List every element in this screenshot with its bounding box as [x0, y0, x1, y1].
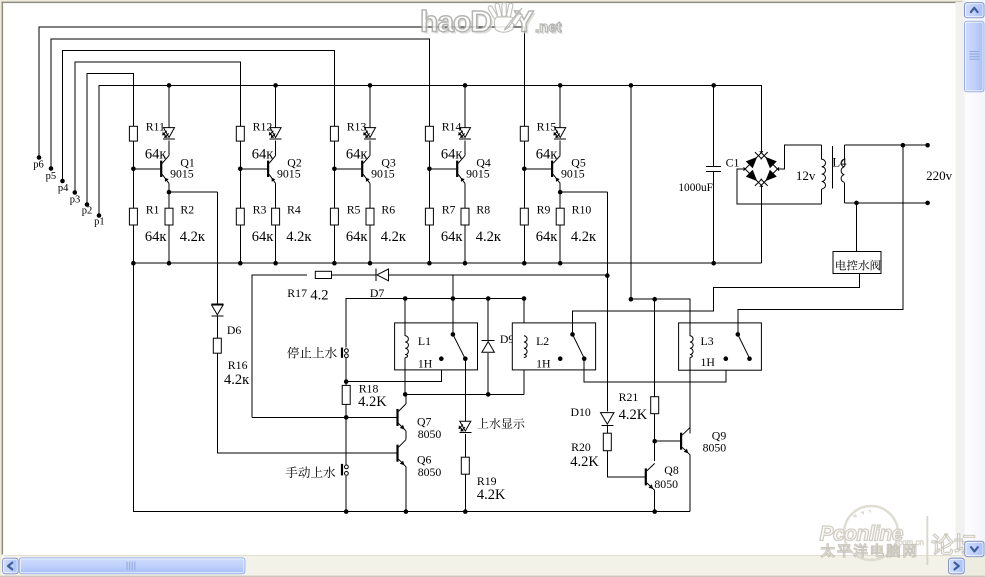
- svg-text:R3: R3: [253, 203, 267, 217]
- svg-text:R13: R13: [347, 120, 367, 134]
- svg-text:4.2K: 4.2K: [477, 487, 506, 503]
- svg-text:4.2к: 4.2к: [224, 372, 250, 388]
- svg-text:64к: 64к: [441, 147, 464, 163]
- svg-text:4.2K: 4.2K: [570, 454, 599, 470]
- svg-text:R4: R4: [287, 203, 301, 217]
- svg-text:12v: 12v: [796, 168, 816, 183]
- svg-text:4.2к: 4.2к: [180, 229, 206, 245]
- svg-text:p4: p4: [58, 183, 69, 194]
- svg-text:L4: L4: [832, 154, 847, 169]
- svg-text:8050: 8050: [418, 465, 442, 479]
- svg-text:D6: D6: [227, 323, 242, 337]
- svg-text:p2: p2: [82, 206, 93, 217]
- svg-text:4.2K: 4.2K: [619, 407, 648, 423]
- svg-text:R1: R1: [146, 203, 160, 217]
- svg-text:1H: 1H: [701, 355, 716, 369]
- svg-text:haoD: haoD: [420, 6, 491, 39]
- svg-text:p6: p6: [33, 160, 44, 171]
- svg-text:1H: 1H: [536, 356, 551, 370]
- svg-text:64к: 64к: [441, 229, 464, 245]
- svg-text:64к: 64к: [252, 147, 274, 163]
- svg-text:220v: 220v: [926, 168, 953, 183]
- svg-text:9015: 9015: [561, 167, 585, 181]
- svg-text:Pconline: Pconline: [820, 523, 904, 546]
- svg-text:4.2к: 4.2к: [476, 229, 502, 245]
- svg-text:.net: .net: [535, 19, 562, 36]
- svg-text:p3: p3: [70, 194, 81, 205]
- svg-text:1H: 1H: [418, 356, 433, 370]
- svg-text:R15: R15: [537, 120, 557, 134]
- svg-text:64к: 64к: [346, 147, 369, 163]
- svg-text:L3: L3: [701, 334, 714, 348]
- svg-text:R5: R5: [347, 203, 361, 217]
- svg-text:R6: R6: [381, 203, 395, 217]
- svg-text:R14: R14: [442, 120, 462, 134]
- svg-text:D10: D10: [571, 405, 591, 419]
- svg-text:9015: 9015: [170, 167, 194, 181]
- svg-text:R7: R7: [442, 203, 456, 217]
- svg-text:9015: 9015: [277, 167, 301, 181]
- svg-text:L2: L2: [536, 334, 549, 348]
- svg-text:p1: p1: [94, 217, 105, 228]
- svg-text:R19: R19: [477, 474, 497, 488]
- svg-text:8050: 8050: [418, 427, 442, 441]
- svg-text:8050: 8050: [654, 477, 678, 491]
- svg-text:64к: 64к: [252, 229, 274, 245]
- svg-text:9015: 9015: [466, 167, 490, 181]
- svg-text:4.2к: 4.2к: [286, 229, 312, 245]
- svg-text:R20: R20: [571, 440, 591, 454]
- svg-text:9015: 9015: [371, 167, 395, 181]
- svg-text:1000uF: 1000uF: [678, 182, 713, 194]
- svg-text:p5: p5: [46, 171, 57, 182]
- svg-text:8050: 8050: [703, 441, 727, 455]
- svg-text:R8: R8: [476, 203, 490, 217]
- svg-text:4.2к: 4.2к: [381, 229, 407, 245]
- svg-text:D7: D7: [370, 286, 385, 300]
- svg-text:64к: 64к: [536, 229, 559, 245]
- svg-text:R10: R10: [572, 203, 592, 217]
- svg-text:R11: R11: [146, 120, 165, 134]
- svg-text:R21: R21: [619, 390, 639, 404]
- svg-text:R2: R2: [180, 203, 194, 217]
- svg-text:L1: L1: [418, 334, 431, 348]
- svg-text:R17: R17: [287, 286, 307, 300]
- svg-text:4.2к: 4.2к: [571, 229, 597, 245]
- svg-text:4.2: 4.2: [310, 288, 328, 304]
- svg-text:C1: C1: [726, 156, 740, 170]
- svg-text:Q8: Q8: [664, 463, 679, 477]
- svg-text:64к: 64к: [536, 147, 559, 163]
- svg-text:64к: 64к: [346, 229, 369, 245]
- svg-text:64к: 64к: [145, 147, 168, 163]
- svg-text:64к: 64к: [145, 229, 168, 245]
- svg-text:4.2K: 4.2K: [358, 394, 387, 410]
- svg-text:R12: R12: [253, 120, 273, 134]
- svg-text:R16: R16: [228, 358, 248, 372]
- svg-text:R9: R9: [537, 203, 551, 217]
